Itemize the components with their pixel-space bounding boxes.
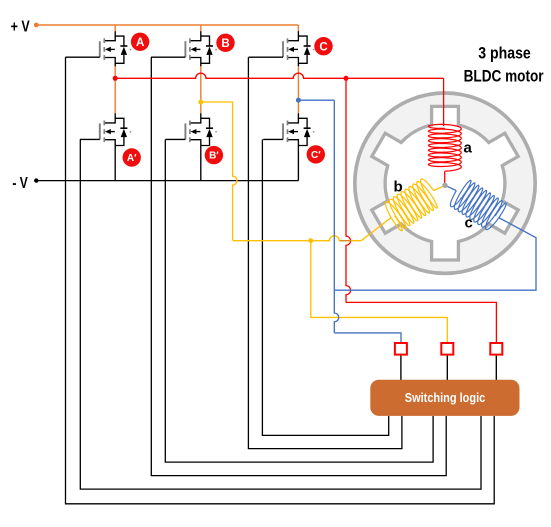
label 3 phase BLDC motor xyxy=(464,45,544,86)
wire gate wire A′ (bottom MOSFET to switching logic) xyxy=(80,139,481,489)
node red branch junction dot xyxy=(344,76,349,81)
node +V terminal dot xyxy=(34,23,39,28)
wire S3 to switching logic xyxy=(495,356,497,381)
svg-text:B: B xyxy=(221,38,229,50)
wire phase node leg A (upper source to lower drain) xyxy=(114,66,116,114)
wire red branch to hall sensor xyxy=(346,78,351,302)
node yellow junction dot (phase b) xyxy=(198,100,203,105)
wire gate wire A (top MOSFET A to switching logic) xyxy=(66,57,495,504)
node -V terminal dot xyxy=(34,178,38,182)
svg-text:A: A xyxy=(136,37,144,49)
node label C xyxy=(314,37,332,55)
wire drain leg phase C (+V to upper MOSFET) xyxy=(297,25,299,32)
wire coil c inner lead xyxy=(445,185,456,190)
switching logic block xyxy=(370,380,519,416)
inductor coil a (red phase winding) xyxy=(428,124,461,171)
svg-text:C: C xyxy=(319,41,327,53)
wire coil b inner lead xyxy=(434,185,445,190)
svg-text:3 phase: 3 phase xyxy=(478,45,531,63)
hall sensor S3 xyxy=(490,343,502,355)
svg-text:Switching logic: Switching logic xyxy=(405,390,486,405)
wire S2 to switching logic xyxy=(446,356,448,381)
wire red to sensor S3 xyxy=(346,302,496,343)
wire yellow overlap tint xyxy=(340,240,351,242)
node label B xyxy=(216,34,234,52)
transistor MOSFET Q6 (C low side) xyxy=(263,113,314,180)
wire +V rail xyxy=(36,24,298,26)
wire S1 to switching logic xyxy=(400,356,402,381)
svg-text:a: a xyxy=(464,140,473,157)
svg-text:BLDC motor: BLDC motor xyxy=(464,68,544,86)
node phase-a junction dot xyxy=(113,76,118,81)
inductor coil b (yellow phase winding) xyxy=(386,179,438,231)
wire blue from motor coil c xyxy=(334,218,536,291)
node yellow junction dot (branch) xyxy=(308,238,313,243)
transistor MOSFET Q1 (A high side) xyxy=(65,31,131,66)
BLDC motor stator outer ring xyxy=(355,93,535,273)
inductor coil c (blue phase winding) xyxy=(450,180,506,229)
svg-text:b: b xyxy=(394,179,403,196)
svg-text:c: c xyxy=(465,215,473,232)
node blue junction dot (phase c) xyxy=(296,98,301,103)
node label B-prime xyxy=(205,146,223,164)
wire red feed down to coil a xyxy=(443,78,445,126)
wire blue elbow to sensor S1 xyxy=(334,333,401,343)
transistor MOSFET Q3 (B high side) xyxy=(151,31,217,66)
wire blue vertical to sensor S1 xyxy=(334,100,338,333)
node star-point dot xyxy=(442,183,447,188)
BLDC motor stator bore with six slots xyxy=(372,106,518,260)
wire red phase-a rail xyxy=(115,73,443,78)
wire yellow branch to sensor S2 xyxy=(311,241,448,343)
wire gate wire C′ xyxy=(262,139,388,435)
svg-text:A′: A′ xyxy=(127,153,137,164)
transistor MOSFET Q4 (B low side) xyxy=(166,113,217,180)
node label C-prime xyxy=(307,145,325,163)
hall sensor S2 xyxy=(441,343,453,355)
wire yellow horizontal to motor xyxy=(233,236,362,241)
transistor MOSFET Q2 (A low side) xyxy=(80,113,131,180)
svg-text:- V: - V xyxy=(12,175,28,192)
wire gate wire C xyxy=(248,57,402,448)
wire yellow phase-b run xyxy=(201,102,237,240)
hall sensor S1 xyxy=(395,343,407,355)
wire -V rail xyxy=(36,180,298,182)
svg-text:C′: C′ xyxy=(311,150,321,161)
wire gate wire B′ xyxy=(165,139,433,462)
wire yellow diagonal into motor xyxy=(361,218,391,241)
wire phase node leg C (upper source to lower drain) xyxy=(297,66,299,114)
node label A xyxy=(131,33,149,51)
wire coil a inner lead xyxy=(444,171,446,185)
wire drain leg phase B (+V to upper MOSFET) xyxy=(200,25,202,32)
wire gate wire B xyxy=(151,57,446,475)
svg-text:+ V: + V xyxy=(11,19,30,36)
wire drain leg phase A (+V to upper MOSFET) xyxy=(114,25,116,32)
svg-text:B′: B′ xyxy=(209,151,219,162)
wire blue phase-c run xyxy=(298,99,334,101)
wire phase node leg B (upper source to lower drain) xyxy=(200,66,202,114)
node label A-prime xyxy=(123,148,141,166)
transistor MOSFET Q5 (C high side) xyxy=(249,31,315,66)
